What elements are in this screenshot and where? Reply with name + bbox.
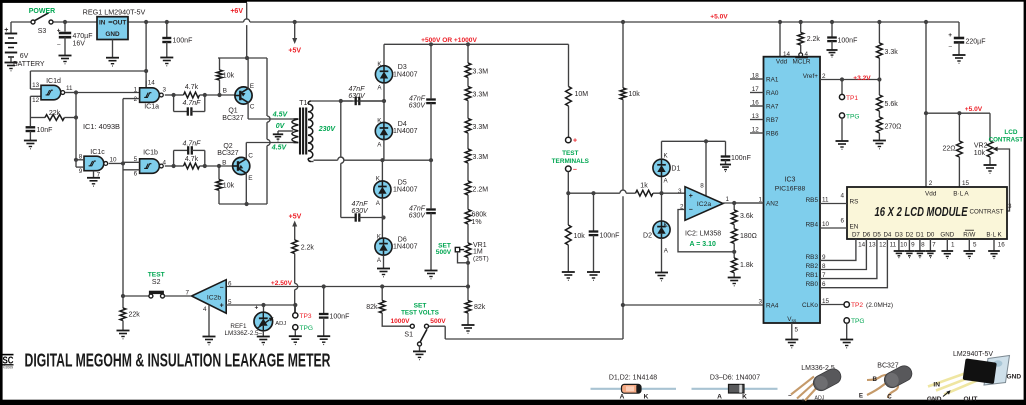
svg-text:5: 5 [795,327,799,334]
resistor 3.6k [733,203,735,210]
capacitor 47nF 630V input bottom [341,217,356,219]
wire Q1 emitter [247,58,249,89]
svg-text:3.3M: 3.3M [473,68,489,75]
capacitor 100nF at REG1 out [165,20,169,24]
resistor 10k input [566,191,570,195]
svg-text:5.6k: 5.6k [885,101,899,108]
svg-text:0V: 0V [276,123,286,130]
svg-text:6: 6 [228,280,232,287]
svg-text:16: 16 [752,100,760,107]
svg-text:EN: EN [850,224,859,231]
svg-text:RS: RS [850,198,859,205]
svg-text:D7: D7 [852,232,860,239]
svg-text:+: + [255,305,259,312]
wire IC1a out [165,94,174,96]
svg-text:15: 15 [822,298,830,305]
wire RB4 to EN [820,227,847,229]
svg-text:IC2a: IC2a [697,201,712,208]
ground 22k [117,330,130,332]
svg-text:+: + [689,193,693,200]
wire IC2a output [723,202,764,204]
wire D5 to RB1 [820,239,877,279]
svg-text:SET: SET [414,303,427,310]
svg-text:4.7k: 4.7k [185,84,199,91]
grounds LCD D3 D2 D1 D0 [898,239,900,251]
svg-text:TEST: TEST [148,272,165,279]
PIC pin1 AN2 [734,202,763,204]
svg-text:RB6: RB6 [766,130,779,137]
test point TPG left [293,325,298,330]
test point TPG right [844,318,849,323]
PIC spare pins RA1 RA0 RA7 RB7 RB6 [750,78,764,80]
wire IC1 Vdd drop [144,20,148,24]
svg-text:D6: D6 [398,237,407,244]
svg-text:1N4007: 1N4007 [393,244,418,251]
resistor 22R backlight [958,113,960,141]
ground REG1 [106,57,119,59]
svg-text:13: 13 [869,242,877,249]
svg-text:47nF: 47nF [409,96,426,103]
svg-text:LM336Z-2.5: LM336Z-2.5 [225,330,259,337]
svg-text:D4: D4 [398,121,407,128]
ground TPG mid [836,140,849,142]
trimpot VR2 10k [989,113,991,141]
svg-text:Vdd: Vdd [925,190,937,197]
svg-text:100nF: 100nF [731,155,751,162]
test point TP1 [840,77,844,81]
svg-text:TP1: TP1 [846,95,858,102]
svg-text:TPG: TPG [846,114,860,121]
svg-text:IC3: IC3 [785,177,796,184]
svg-text:(25T): (25T) [473,255,489,262]
svg-text:220µF: 220µF [966,39,986,46]
test point TPG mid [839,113,844,118]
svg-text:4: 4 [840,193,844,200]
svg-text:1N4007: 1N4007 [393,128,418,135]
svg-text:TP2: TP2 [851,302,863,309]
transistor Q1 BC327 [235,87,252,104]
svg-text:BC327: BC327 [222,115,244,122]
svg-text:D5: D5 [398,179,407,186]
svg-text:+5V: +5V [288,47,301,54]
svg-text:+: + [948,32,952,39]
svg-text:16: 16 [998,242,1006,249]
svg-text:RB0: RB0 [806,281,819,288]
switch S2 TEST [123,295,149,297]
svg-text:Vref+: Vref+ [803,73,818,80]
svg-text:B·L A: B·L A [953,190,969,197]
svg-text:15: 15 [962,180,970,187]
svg-text:7: 7 [932,242,936,249]
ground stage cap [425,270,438,272]
reference REF1 LM336Z-2.5 [263,305,265,312]
wire HV rail +500V [384,43,569,45]
ground VR2 [984,164,997,166]
svg-text:22k: 22k [129,311,141,318]
svg-text:RB3: RB3 [806,254,819,261]
svg-text:4: 4 [163,159,167,166]
svg-text:180Ω: 180Ω [740,233,757,240]
svg-text:LCD: LCD [1004,129,1018,136]
diode D4 1N4007 [375,122,392,139]
ground 470uF [59,55,72,57]
resistor 270R [877,117,883,133]
svg-text:9: 9 [911,242,915,249]
svg-text:9: 9 [822,254,826,261]
wire range divider down [622,196,624,339]
svg-text:10k: 10k [974,150,986,157]
gate IC1b [140,159,160,174]
svg-text:2.2k: 2.2k [807,36,821,43]
svg-text:3.3M: 3.3M [473,154,489,161]
wire IC1d output [65,92,76,94]
ground LCD backlight K [993,239,995,251]
resistor 1k [636,190,654,196]
test terminal positive [566,137,572,143]
resistor 2.2k MCLR [799,20,803,24]
svg-text:1%: 1% [472,219,482,226]
svg-text:IC1a: IC1a [144,103,159,110]
op-amp IC2b [192,280,227,314]
wire +6V bottom to Q2 [219,203,267,205]
diode D3 1N4007 [383,44,385,65]
svg-text:B·L K: B·L K [986,232,1002,239]
svg-text:D3–D6: 1N4007: D3–D6: 1N4007 [710,375,760,382]
svg-text:8: 8 [921,242,925,249]
ground 100nF input [587,271,600,273]
svg-text:BATTERY: BATTERY [13,61,45,68]
ground TPG right [840,339,853,341]
test terminal negative [566,166,572,172]
svg-text:10M: 10M [575,91,589,98]
svg-text:47nF: 47nF [349,86,366,93]
svg-text:–: – [573,166,577,173]
svg-text:IN: IN [99,19,106,26]
svg-text:11: 11 [890,242,897,249]
svg-text:D4: D4 [883,232,891,239]
diode D1 1N4148 [661,176,663,193]
svg-text:POWER: POWER [29,8,55,15]
svg-text:4.7nF: 4.7nF [183,140,202,147]
svg-text:D2: D2 [905,232,913,239]
node +6V vertical from top border [246,3,248,19]
svg-text:+500V OR +1000V: +500V OR +1000V [421,37,477,44]
svg-text:630V: 630V [348,93,366,100]
svg-text:GND: GND [940,232,954,239]
svg-text:+: + [801,399,805,405]
IC3 PIC16F88 body [764,57,821,323]
trimpot VR1 1M 25T [465,243,471,258]
svg-text:B: B [223,87,227,94]
svg-text:CLKo: CLKo [802,302,818,309]
wire IC1c inputs [76,159,84,161]
svg-text:DIGITAL MEGOHM & INSULATION LE: DIGITAL MEGOHM & INSULATION LEAKAGE METE… [25,350,331,371]
svg-text:RB1: RB1 [806,272,819,279]
svg-text:16V: 16V [73,41,86,48]
label +5V arrow top [294,22,296,39]
svg-text:R/W: R/W [963,232,975,239]
svg-text:7: 7 [185,289,189,296]
transformer T1 secondary [308,104,313,112]
capacitor 4.7nF Q2 [173,150,175,166]
svg-text:13: 13 [32,82,40,89]
svg-text:22k: 22k [49,110,61,117]
svg-text:VR2: VR2 [974,143,988,150]
PIC Vref+ pin2 [820,79,879,81]
svg-text:IC2: LM358: IC2: LM358 [685,231,721,238]
transistor Q2 BC327 [233,157,250,174]
svg-text:D3: D3 [895,232,903,239]
svg-text:10k: 10k [223,73,235,80]
svg-text:+2.50V: +2.50V [271,280,293,287]
svg-text:RB2: RB2 [806,263,819,270]
svg-text:14: 14 [858,242,866,249]
svg-text:S1: S1 [404,331,413,338]
svg-text:6: 6 [840,218,844,225]
wire IC1a pin1 [123,92,140,94]
resistor 22k osc [30,117,45,119]
wire RB5 to RS [820,203,847,205]
svg-text:82k: 82k [474,304,486,311]
svg-text:12: 12 [32,97,40,104]
capacitor 10nF [29,118,31,127]
capacitor 47nF 630V stage top [430,44,432,98]
svg-text:+: + [573,138,577,145]
svg-text:(2.0MHz): (2.0MHz) [866,302,893,309]
svg-text:3.6k: 3.6k [740,213,754,220]
ground IC2b [203,336,216,338]
resistor 10k Q1 base [219,58,221,70]
svg-text:1: 1 [134,87,138,94]
svg-text:1N4007: 1N4007 [393,186,418,193]
svg-text:3.3M: 3.3M [473,92,489,99]
svg-text:REG1 LM2940T-5V: REG1 LM2940T-5V [83,8,146,17]
svg-text:630V: 630V [409,103,427,110]
svg-text:CONTRAST: CONTRAST [969,209,1003,216]
diode D2 1N4148 [661,193,663,221]
svg-text:11: 11 [822,197,829,204]
svg-text:D6: D6 [862,232,870,239]
svg-text:–: – [220,284,224,291]
capacitor 47nF 630V stage bottom [430,160,432,208]
svg-text:10k: 10k [223,183,235,190]
svg-text:+3.2V: +3.2V [853,75,871,82]
bus IC1 control vertical [122,99,124,296]
svg-text:1N4007: 1N4007 [393,71,418,78]
svg-text:3.3M: 3.3M [473,124,489,131]
capacitor 470uF 16V [63,20,67,24]
switch S1 500V contact [425,324,429,328]
wire IC1c gnd pin7 [93,171,95,178]
svg-text:A: A [620,394,625,401]
wire IC2a feedback [678,210,734,252]
capacitor 100nF input [591,191,595,195]
svg-text:4.5V: 4.5V [271,145,288,152]
svg-text:2.2M: 2.2M [473,186,489,193]
svg-text:11: 11 [66,85,73,92]
svg-text:5: 5 [973,242,977,249]
resistor 82k right [467,287,469,301]
svg-text:OUT: OUT [964,396,978,403]
ground 100nF PIC [826,49,837,51]
svg-text:100nF: 100nF [838,38,858,45]
svg-text:IC2b: IC2b [207,295,222,302]
resistor 4.7k Q1 [174,94,184,96]
svg-text:10: 10 [822,221,830,228]
wire IC2b plus input [226,304,295,306]
diode D6 1N4007 [375,238,392,255]
wire Q1 base [205,94,235,96]
ground 100nF ref [317,335,330,337]
test point TP2 [844,302,849,307]
svg-text:OUT: OUT [113,19,127,26]
test point TP3 [294,305,296,313]
svg-text:D1: D1 [671,165,680,172]
border frame [0,0,3,405]
svg-text:D2: D2 [643,233,652,240]
svg-text:4.7k: 4.7k [185,156,199,163]
diode D5 1N4007 [381,160,383,181]
capacitor 4.7nF Q1 [173,95,175,112]
svg-text:680k: 680k [472,212,488,219]
wire Q2 base [205,165,233,167]
svg-text:T1: T1 [299,100,307,107]
svg-text:4.7nF: 4.7nF [183,100,202,107]
resistor 4.7k Q2 [174,165,184,167]
svg-text:D5: D5 [873,232,881,239]
svg-text:Q2: Q2 [223,143,232,150]
svg-text:CONTRAST: CONTRAST [989,136,1024,143]
svg-text:3: 3 [1008,203,1012,210]
gate IC1c [84,156,104,171]
svg-text:ADJ: ADJ [275,321,286,327]
capacitor 100nF ref [323,287,325,314]
svg-text:D1: D1 [916,232,924,239]
svg-text:1: 1 [758,196,762,203]
svg-text:2.2k: 2.2k [301,245,315,252]
svg-text:+: + [220,303,224,310]
ground 10k input [562,271,575,273]
svg-text:500V: 500V [436,249,452,256]
wire D1 cathode to +5V bypass [662,140,726,142]
svg-text:+5.0V: +5.0V [710,14,728,21]
svg-text:C: C [250,103,255,110]
svg-text:TP3: TP3 [300,313,312,320]
transformer T1 primary [290,118,293,120]
svg-text:GND: GND [927,396,942,403]
wire IC1d pin12 [30,95,41,97]
wire S1 to range [445,338,623,340]
PIC CLKo pin15 [820,304,844,306]
svg-text:47nF: 47nF [409,206,426,213]
svg-text:2: 2 [134,96,138,103]
svg-text:100nF: 100nF [600,233,620,240]
wire +6V vertical with hops [266,58,268,116]
svg-text:3: 3 [758,298,762,305]
svg-text:16 X 2 LCD MODULE: 16 X 2 LCD MODULE [875,205,969,219]
wire Q2 collector to T1 [245,143,247,160]
capacitor 100nF IC2 supply [725,141,727,155]
svg-text:D1,D2: 1N4148: D1,D2: 1N4148 [609,375,657,382]
svg-text:10k: 10k [629,91,641,98]
ground D2 [655,272,668,274]
wire REG1 GND pin [112,40,114,58]
battery B1 6V [10,22,12,34]
svg-text:RB4: RB4 [806,222,819,229]
svg-text:+6V: +6V [230,8,243,15]
svg-text:6: 6 [134,171,138,178]
svg-text:270Ω: 270Ω [885,124,902,131]
svg-text:17: 17 [752,86,760,93]
svg-text:10: 10 [900,242,908,249]
svg-text:1k: 1k [640,183,648,190]
svg-text:4.5V: 4.5V [272,112,289,119]
svg-text:S2: S2 [152,279,161,286]
svg-text:ADJ: ADJ [815,396,825,402]
ground 270R [873,140,886,142]
svg-text:230V: 230V [318,126,337,133]
wire Q1 collector to T1 [247,102,249,119]
resistor 10k range [621,20,625,24]
svg-text:1000V: 1000V [390,318,410,325]
svg-text:A = 3.10: A = 3.10 [690,241,717,248]
svg-text:RA7: RA7 [766,103,779,110]
ground T1 center tap [273,133,283,135]
ground LCD RW [968,239,970,251]
svg-text:A: A [717,394,722,401]
svg-text:BC327: BC327 [217,150,239,157]
svg-text:B: B [873,376,878,383]
ground IC1c pin7 [87,177,100,179]
svg-text:TPG: TPG [851,318,865,325]
svg-text:IC1: 4093B: IC1: 4093B [83,122,120,131]
svg-text:S3: S3 [38,28,47,35]
svg-text:6V: 6V [20,53,29,60]
wire IC1b inputs [123,161,140,163]
svg-text:6: 6 [822,281,826,288]
svg-text:630V: 630V [351,208,369,215]
svg-text:–: – [689,207,693,214]
svg-text:1.8k: 1.8k [740,262,754,269]
wire IC1d input feed [30,70,146,72]
svg-text:2: 2 [929,180,933,187]
svg-text:18: 18 [752,73,760,80]
svg-text:IC1d: IC1d [46,78,61,85]
svg-text:E: E [250,83,255,90]
ground 100nF [160,57,173,59]
svg-text:12: 12 [752,127,760,134]
svg-text:LM2940T-5V: LM2940T-5V [953,351,993,358]
ground TPG left [289,335,302,337]
wire T1 secondary top [311,100,384,102]
wire PIC Vdd pin14 [778,20,782,24]
resistor 2.2k ref bias [292,221,297,227]
resistor 22k IC2b [122,296,124,308]
svg-text:14: 14 [148,79,156,86]
svg-text:7: 7 [822,272,826,279]
wire IC1c output to bus [109,162,123,164]
resistor 10k Q2 base [218,166,220,180]
svg-text:3.3k: 3.3k [885,49,899,56]
op-amp IC2a [705,141,707,196]
ground PIC Vss [785,339,798,341]
resistor 3.3k [877,20,881,24]
ground gain divider [728,277,741,279]
svg-text:500V: 500V [430,318,446,325]
svg-text:TPG: TPG [300,325,314,332]
svg-text:GND: GND [1007,373,1022,380]
LCD module body [847,187,1007,239]
